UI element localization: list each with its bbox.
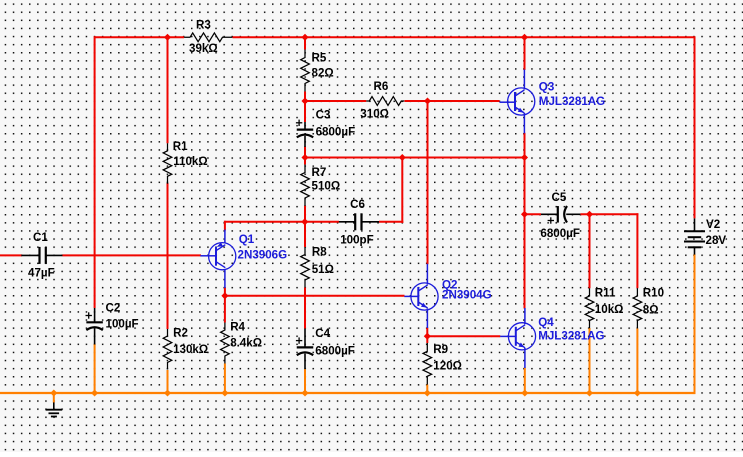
svg-text:510Ω: 510Ω xyxy=(312,180,341,193)
svg-text:110kΩ: 110kΩ xyxy=(173,155,207,168)
svg-text:6800µF: 6800µF xyxy=(316,126,356,139)
svg-text:MJL3281AG: MJL3281AG xyxy=(539,95,605,108)
svg-text:310Ω: 310Ω xyxy=(360,108,389,121)
svg-text:R5: R5 xyxy=(312,52,327,65)
svg-text:47µF: 47µF xyxy=(28,267,55,280)
svg-text:8.4kΩ: 8.4kΩ xyxy=(230,336,262,349)
svg-text:82Ω: 82Ω xyxy=(312,66,334,79)
svg-text:C5: C5 xyxy=(552,191,567,204)
svg-text:C6: C6 xyxy=(350,198,365,211)
svg-text:C1: C1 xyxy=(33,231,48,244)
svg-text:R3: R3 xyxy=(196,19,211,32)
svg-text:R2: R2 xyxy=(173,327,188,340)
svg-text:2N3906G: 2N3906G xyxy=(238,248,288,261)
svg-text:R4: R4 xyxy=(230,320,245,333)
svg-text:8Ω: 8Ω xyxy=(643,304,659,317)
svg-text:Q3: Q3 xyxy=(539,80,555,93)
svg-text:120Ω: 120Ω xyxy=(433,359,462,372)
svg-text:R8: R8 xyxy=(312,246,327,259)
svg-text:10kΩ: 10kΩ xyxy=(595,303,624,316)
svg-text:130kΩ: 130kΩ xyxy=(173,343,208,356)
svg-text:R6: R6 xyxy=(374,80,389,93)
svg-text:100µF: 100µF xyxy=(106,318,139,331)
svg-text:R10: R10 xyxy=(643,286,664,299)
svg-text:C4: C4 xyxy=(315,327,330,340)
svg-text:V2: V2 xyxy=(706,218,720,231)
svg-text:Q1: Q1 xyxy=(239,233,255,246)
svg-text:R7: R7 xyxy=(312,166,327,179)
svg-text:R11: R11 xyxy=(595,286,616,299)
svg-text:2N3904G: 2N3904G xyxy=(442,288,492,301)
svg-text:6800µF: 6800µF xyxy=(540,227,580,240)
svg-text:R1: R1 xyxy=(173,140,188,153)
svg-text:Q4: Q4 xyxy=(538,316,554,329)
svg-text:6800µF: 6800µF xyxy=(315,344,355,357)
svg-text:51Ω: 51Ω xyxy=(312,263,334,276)
svg-text:C3: C3 xyxy=(316,108,331,121)
svg-text:100pF: 100pF xyxy=(340,234,374,247)
svg-text:R9: R9 xyxy=(433,343,448,356)
svg-text:MJL3281AG: MJL3281AG xyxy=(538,329,604,342)
svg-text:28V: 28V xyxy=(706,234,727,247)
svg-text:39kΩ: 39kΩ xyxy=(189,42,218,55)
svg-text:C2: C2 xyxy=(106,302,121,315)
